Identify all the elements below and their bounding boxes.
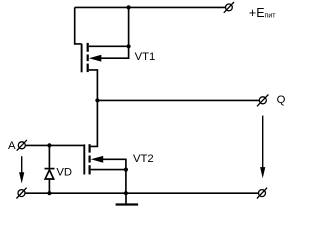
terminal +Eпит: [224, 2, 234, 13]
wire bottom rail: [25, 192, 258, 194]
node junction VT1 drain: [127, 44, 131, 48]
terminal bottom right: [257, 188, 267, 199]
svg-text:VT2: VT2: [133, 153, 154, 165]
wire VT1 gate to top rail: [75, 7, 82, 44]
ground: [116, 193, 139, 204]
diode VD: [45, 145, 55, 193]
wire VT1 drain lead to branch: [89, 7, 129, 46]
wire input A to VT2 gate: [25, 144, 84, 146]
terminal A: [17, 140, 27, 151]
wire VT2 source lead to ground rail: [91, 170, 126, 194]
svg-text:A: A: [8, 140, 16, 152]
wire output node down to VT2 drain: [91, 100, 98, 146]
node junction diode anode top: [47, 143, 51, 147]
transistor VT1: [82, 43, 102, 72]
wire VT1 source to output node: [89, 70, 98, 101]
node junction ground rail: [124, 191, 128, 195]
node output junction: [95, 98, 99, 102]
node junction diode anode bottom: [47, 191, 51, 195]
wire output line to Q terminal: [97, 99, 259, 101]
node junction VT2 source: [124, 168, 128, 172]
arrow input direction: [19, 156, 24, 183]
wire VT1 substrate lead to branch: [101, 46, 129, 59]
node junction on top rail: [127, 5, 131, 9]
terminal Q: [257, 95, 268, 107]
wire top rail to +E terminal: [75, 6, 226, 8]
wire VT2 substrate lead to source branch: [102, 159, 126, 169]
transistor VT2: [84, 144, 103, 174]
arrow output direction: [260, 116, 265, 179]
svg-text:Q: Q: [277, 94, 286, 106]
terminal bottom left: [16, 188, 26, 199]
svg-text:VD: VD: [56, 166, 72, 178]
svg-text:+Eпит: +Eпит: [249, 6, 276, 20]
svg-text:VT1: VT1: [135, 51, 156, 63]
